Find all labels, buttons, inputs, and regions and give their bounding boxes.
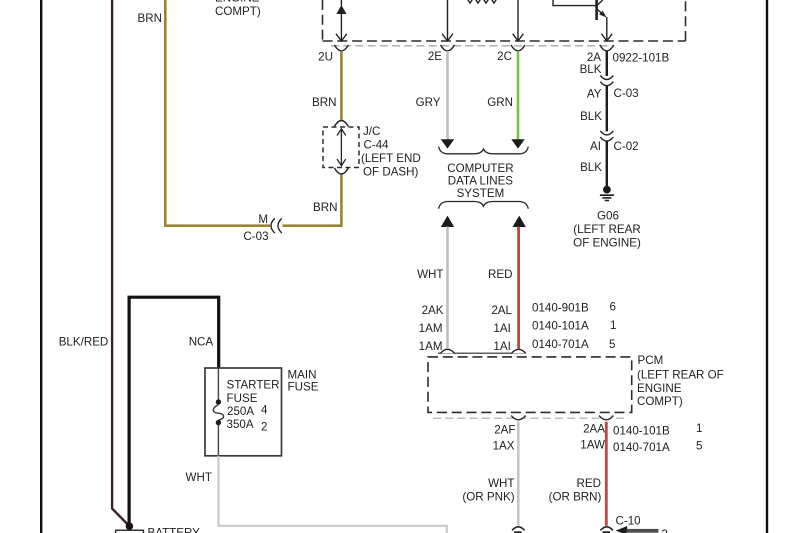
svg-text:0140-701A: 0140-701A [532,338,589,351]
svg-text:PCM: PCM [638,354,664,367]
svg-text:6: 6 [610,300,616,313]
svg-text:(LEFT REAR: (LEFT REAR [573,223,640,236]
svg-text:C-10: C-10 [616,515,641,528]
wire GRN from 2C [517,51,520,140]
svg-text:1: 1 [610,319,616,332]
svg-text:3: 3 [662,528,668,533]
svg-text:2AA: 2AA [583,423,605,436]
svg-text:AI: AI [590,140,601,153]
svg-text:RED: RED [488,268,512,281]
svg-text:C-02: C-02 [614,140,639,153]
svg-text:BRN: BRN [312,96,336,109]
junction dot at battery [126,522,134,530]
svg-text:COMPT): COMPT) [215,5,261,18]
wire BRN horizontal with M C-03 connector [164,224,270,227]
svg-text:BRN: BRN [138,12,162,25]
svg-text:0140-101B: 0140-101B [613,425,670,438]
pin bump 2U [334,45,348,51]
svg-text:(LEFT END: (LEFT END [361,152,421,165]
svg-text:350A: 350A [227,418,254,431]
wire BLK from 2A [606,51,608,76]
svg-text:2AL: 2AL [491,304,512,317]
transistor Q inside top box [553,0,612,41]
diode inside top box [336,0,347,41]
svg-text:1AI: 1AI [493,340,510,353]
svg-text:2C: 2C [497,50,512,63]
arrow pointing left at bottom [616,526,628,533]
svg-text:2AF: 2AF [494,424,515,437]
svg-text:WHT: WHT [186,471,212,484]
wire BLK lower [606,141,608,186]
fuse element inside starter fuse box [217,368,219,400]
svg-text:BLK: BLK [580,110,602,123]
brace top (computer data lines) [439,147,529,154]
pin bump 2E [441,45,455,51]
PCM connector strip bottom [433,417,627,419]
svg-text:250A: 250A [227,405,254,418]
svg-text:C-03: C-03 [614,87,639,100]
svg-text:5: 5 [696,440,702,453]
wire left black vertical (battery feed) [40,0,42,533]
svg-text:COMPT): COMPT) [637,395,683,408]
wire BLK/RED maroon vertical [112,0,129,526]
wire BRN from 2U [340,51,343,120]
component box top (engine compt module, dashed) [323,0,686,41]
svg-text:2AK: 2AK [422,304,444,317]
pin bump 2A [600,45,614,51]
wire GRY from 2E [446,51,449,140]
battery box partial [116,530,144,533]
svg-text:MAIN: MAIN [288,369,317,382]
arrows up from WHT and RED wires [441,216,454,227]
svg-text:2U: 2U [318,51,333,64]
svg-text:0140-701A: 0140-701A [613,441,670,454]
wire BRN below J/C [340,175,343,226]
svg-text:2E: 2E [428,50,442,63]
wire WHT from fuse to bottom right [219,456,447,533]
battery circuit black wires [129,297,219,526]
svg-text:G06: G06 [597,209,619,222]
svg-text:1AM: 1AM [419,322,443,335]
svg-text:1AW: 1AW [580,439,605,452]
wire WHT upper (gray) [446,227,449,349]
svg-text:STARTER: STARTER [227,379,280,392]
svg-text:(LEFT REAR OF: (LEFT REAR OF [637,368,724,381]
svg-text:AY: AY [587,87,602,100]
wire RED upper [517,227,520,349]
wire RED (OR BRN) below PCM [605,422,608,526]
svg-text:0140-901B: 0140-901B [532,302,589,315]
wire BRN left vertical [164,0,167,226]
svg-text:1AX: 1AX [493,440,515,453]
wire right black vertical [766,0,768,533]
starter fuse box [205,368,282,456]
PCM box dashed [428,357,632,413]
svg-text:GRY: GRY [416,96,441,109]
connector M C-03 arcs [271,218,275,233]
wire BLK mid [606,86,608,131]
svg-text:SYSTEM: SYSTEM [457,187,505,200]
brace bottom [439,202,529,209]
svg-text:5: 5 [609,338,615,351]
connector strip gray dashed under top box [331,45,613,47]
svg-text:(OR PNK): (OR PNK) [462,490,514,503]
svg-text:0140-101A: 0140-101A [532,320,589,333]
svg-text:C-44: C-44 [364,139,390,152]
svg-text:J/C: J/C [363,125,380,138]
svg-text:M: M [258,213,268,226]
connector C-03 inline on black wire [600,76,613,80]
svg-text:BATTERY: BATTERY [148,527,201,533]
svg-text:4: 4 [261,404,268,417]
wire 2C pin drop with arrow [513,0,524,41]
PCM connector strip top [438,352,525,354]
svg-text:NCA: NCA [189,335,214,348]
svg-text:DATA LINES: DATA LINES [448,174,514,187]
svg-text:WHT: WHT [417,268,443,281]
svg-text:WHT: WHT [488,477,514,490]
resistor zigzag partial at top [466,0,498,3]
svg-text:GRN: GRN [487,96,513,109]
svg-text:BRN: BRN [313,201,337,214]
svg-text:FUSE: FUSE [227,392,258,405]
svg-text:(OR BRN): (OR BRN) [549,490,602,503]
svg-text:COMPUTER: COMPUTER [447,162,513,175]
svg-text:RED: RED [577,477,601,490]
arrows down into computer data lines brace [441,139,454,148]
wire 2E pin drop with arrow [442,0,453,41]
svg-text:C-03: C-03 [243,230,268,243]
svg-text:1AM: 1AM [419,340,443,353]
connector C-02 inline on black wire [600,131,613,135]
svg-text:2: 2 [261,420,267,433]
svg-text:BLK/RED: BLK/RED [59,335,109,348]
svg-text:1: 1 [696,422,702,435]
svg-text:0922-101B: 0922-101B [613,51,670,64]
junction connector J/C C-44 [334,121,348,127]
svg-text:OF ENGINE): OF ENGINE) [573,236,641,249]
svg-text:1AI: 1AI [493,322,510,335]
wire WHT (OR PNK) below PCM [517,422,520,526]
ground G06 [600,186,614,201]
svg-text:BLK: BLK [580,63,602,76]
svg-text:BLK: BLK [580,161,602,174]
pin bump 2C [511,45,525,51]
svg-text:FUSE: FUSE [288,381,319,394]
svg-text:ENGINE: ENGINE [637,382,682,395]
svg-text:OF DASH): OF DASH) [363,166,419,179]
